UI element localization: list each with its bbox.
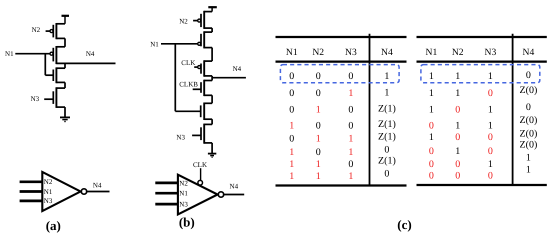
wire input N3 (gate b) [155, 203, 178, 206]
svg-text:N4: N4 [523, 47, 535, 58]
svg-text:0: 0 [316, 147, 321, 158]
table row 1 [289, 71, 389, 82]
svg-text:N2: N2 [44, 178, 53, 186]
table row 1 [429, 70, 531, 82]
svg-text:Z(1): Z(1) [378, 119, 396, 130]
table header [286, 47, 393, 58]
svg-text:0: 0 [429, 121, 434, 132]
table row 4 [289, 119, 395, 132]
ground (circuit a) [60, 117, 70, 121]
svg-text:1: 1 [289, 159, 294, 170]
svg-text:N4: N4 [93, 182, 102, 190]
dashed highlight box [421, 65, 540, 83]
svg-text:0: 0 [455, 159, 460, 170]
wire rail P2-P3 (circuit b) [211, 48, 213, 62]
svg-text:1: 1 [455, 121, 460, 132]
svg-text:Z(0): Z(0) [520, 85, 538, 96]
svg-text:1: 1 [455, 71, 460, 82]
wire input N1 (circuit a) [15, 53, 50, 55]
svg-text:N1: N1 [5, 50, 14, 58]
svg-text:(b): (b) [179, 215, 195, 230]
transistor NM3 NMOS gate N3 (circuit b) [192, 124, 212, 144]
wire rail to ground (circuit a) [64, 107, 66, 117]
table row 5 [289, 131, 395, 144]
svg-text:N1: N1 [179, 190, 188, 198]
svg-text:0: 0 [488, 146, 493, 157]
svg-text:0: 0 [316, 121, 321, 132]
svg-text:N1: N1 [426, 47, 438, 58]
svg-text:1: 1 [316, 159, 321, 170]
table row 3 [289, 104, 395, 116]
wire input N1 (gate a) [20, 190, 43, 193]
svg-text:0: 0 [429, 159, 434, 170]
wire rail NM1-NM2 (circuit a) [64, 82, 66, 88]
svg-text:N2: N2 [312, 47, 324, 58]
svg-text:1: 1 [348, 133, 353, 144]
svg-text:N3: N3 [44, 197, 53, 205]
gate symbol triangle (b) [178, 175, 218, 215]
table row 4 [429, 115, 537, 132]
svg-text:1: 1 [488, 121, 493, 132]
svg-text:N2: N2 [32, 26, 41, 34]
svg-text:1: 1 [316, 133, 321, 144]
table row 8 [289, 168, 389, 182]
svg-text:CLK: CLK [181, 59, 195, 67]
transistor P1 PMOS gate N2 (circuit a) [46, 23, 65, 39]
svg-text:(a): (a) [46, 218, 61, 233]
svg-text:1: 1 [316, 105, 321, 116]
svg-text:0: 0 [429, 171, 434, 182]
svg-text:1: 1 [289, 171, 294, 182]
svg-text:N4: N4 [86, 50, 95, 58]
table row 5 [429, 129, 537, 143]
node N4 output wire (circuit a) [56, 62, 115, 64]
svg-text:1: 1 [429, 132, 434, 143]
svg-text:Z(1): Z(1) [378, 104, 396, 115]
table row 2 [429, 85, 537, 99]
power VDD symbol (circuit b) [208, 6, 217, 11]
power VDD symbol (circuit a) [62, 15, 70, 24]
svg-text:CLK: CLK [193, 161, 207, 169]
svg-text:N3: N3 [345, 47, 357, 58]
svg-text:0: 0 [429, 146, 434, 157]
table row 7 [289, 156, 395, 171]
svg-text:Z(0): Z(0) [520, 129, 538, 140]
wire rail P3-NM1 (circuit b) [211, 76, 213, 81]
wire rail P1-P2 (circuit a) [64, 38, 66, 46]
svg-text:0: 0 [488, 88, 493, 99]
svg-text:0: 0 [348, 121, 353, 132]
svg-text:1: 1 [429, 104, 434, 115]
wire rail P1-P2 (circuit b) [211, 28, 213, 32]
dashed highlight box [280, 65, 399, 83]
wire rail NM2-NM3 (circuit b) [211, 119, 213, 124]
svg-text:1: 1 [488, 104, 493, 115]
svg-text:0: 0 [526, 102, 531, 113]
svg-text:N2: N2 [179, 179, 188, 187]
table header [426, 47, 535, 58]
svg-text:1: 1 [429, 88, 434, 99]
svg-text:1: 1 [289, 121, 294, 132]
ground (circuit b) [208, 154, 216, 158]
wire input N2 (gate b) [155, 182, 178, 185]
transistor P1 PMOS gate N2 (circuit b) [193, 11, 212, 29]
svg-text:0: 0 [455, 104, 460, 115]
transistor P2 PMOS gate N1 (circuit b) [198, 31, 212, 48]
wire output N4 (gate b) [224, 194, 244, 196]
svg-text:0: 0 [455, 132, 460, 143]
svg-text:N2: N2 [452, 47, 464, 58]
svg-text:0: 0 [488, 132, 493, 143]
svg-text:1: 1 [455, 146, 460, 157]
transistor NM2 NMOS gate from N1 (circuit b) [201, 103, 212, 121]
svg-text:1: 1 [429, 71, 434, 82]
wire rail N4-NM1 (circuit a) [64, 63, 66, 68]
wire rail NM1-NM2 (circuit b) [211, 95, 213, 103]
wire output N4 (gate a) [87, 191, 110, 193]
table row 6 [429, 139, 537, 157]
transistor P2 PMOS gate N1 (circuit a) [50, 46, 65, 64]
svg-text:0: 0 [289, 105, 294, 116]
svg-text:1: 1 [488, 159, 493, 170]
transistor NM1 NMOS gate from N1 (circuit a) [53, 67, 65, 83]
svg-text:1: 1 [526, 152, 531, 163]
svg-text:1: 1 [348, 171, 353, 182]
svg-text:0: 0 [316, 71, 321, 82]
svg-text:N3: N3 [179, 201, 188, 209]
svg-text:0: 0 [348, 105, 353, 116]
CLK bubble on triangle edge (gate b) [198, 180, 203, 185]
svg-text:1: 1 [348, 88, 353, 99]
svg-text:1: 1 [384, 88, 389, 99]
table row 2 [289, 88, 389, 99]
svg-text:1: 1 [348, 147, 353, 158]
svg-text:Z(0): Z(0) [520, 115, 538, 126]
wire rail to ground (circuit b) [211, 143, 213, 154]
wire N1 drop to NMOS gate (circuit b) [175, 44, 200, 112]
svg-text:1: 1 [526, 164, 531, 175]
table row 3 [429, 102, 531, 115]
svg-text:N1: N1 [44, 188, 53, 196]
svg-text:1: 1 [289, 147, 294, 158]
svg-text:0: 0 [348, 159, 353, 170]
svg-text:CLKB: CLKB [179, 81, 198, 89]
svg-text:1: 1 [384, 71, 389, 82]
svg-text:N1: N1 [150, 40, 159, 48]
table frame lines [276, 34, 407, 186]
wire input N1 (gate b) [155, 192, 178, 195]
output bubble (gate b) [218, 192, 223, 197]
svg-text:N4: N4 [230, 183, 239, 191]
output bubble (gate a) [81, 189, 86, 194]
svg-text:0: 0 [348, 71, 353, 82]
svg-text:Z(1): Z(1) [378, 156, 396, 167]
svg-text:N4: N4 [381, 47, 393, 58]
svg-text:(c): (c) [397, 217, 411, 232]
svg-text:0: 0 [289, 88, 294, 99]
wire input N2 (gate a) [20, 180, 43, 183]
svg-text:0: 0 [289, 133, 294, 144]
transistor P3 PMOS gate CLK (circuit b) [194, 60, 212, 76]
svg-text:0: 0 [455, 171, 460, 182]
svg-text:1: 1 [455, 88, 460, 99]
svg-text:N1: N1 [286, 47, 298, 58]
wire N1 drop to NMOS gate (circuit a) [45, 54, 52, 75]
svg-text:0: 0 [488, 171, 493, 182]
wire CLK stem (gate b) [200, 168, 202, 180]
svg-text:Z(1): Z(1) [378, 131, 396, 142]
svg-text:N3: N3 [485, 47, 497, 58]
svg-text:1: 1 [316, 171, 321, 182]
transistor NM1 NMOS gate CLKB (circuit b) [193, 80, 212, 96]
table row 8 [429, 164, 531, 181]
transistor NM2 NMOS gate N3 (circuit a) [44, 87, 65, 108]
wire input N1 (circuit b) [161, 43, 198, 45]
table row 6 [289, 144, 389, 158]
svg-text:0: 0 [384, 144, 389, 155]
table frame lines [417, 34, 547, 185]
svg-text:Z(0): Z(0) [520, 139, 538, 150]
svg-text:0: 0 [289, 71, 294, 82]
svg-text:N3: N3 [176, 133, 185, 141]
gate symbol triangle (a) [42, 172, 80, 211]
svg-text:N4: N4 [233, 65, 242, 73]
node N4 output wire (circuit b) [212, 77, 246, 79]
svg-text:1: 1 [488, 71, 493, 82]
svg-text:N3: N3 [31, 95, 40, 103]
table row 7 [429, 152, 531, 170]
wire input N3 (gate a) [20, 200, 43, 203]
svg-text:0: 0 [526, 70, 531, 81]
svg-text:0: 0 [384, 168, 389, 179]
svg-text:0: 0 [316, 88, 321, 99]
svg-text:N2: N2 [179, 17, 188, 25]
